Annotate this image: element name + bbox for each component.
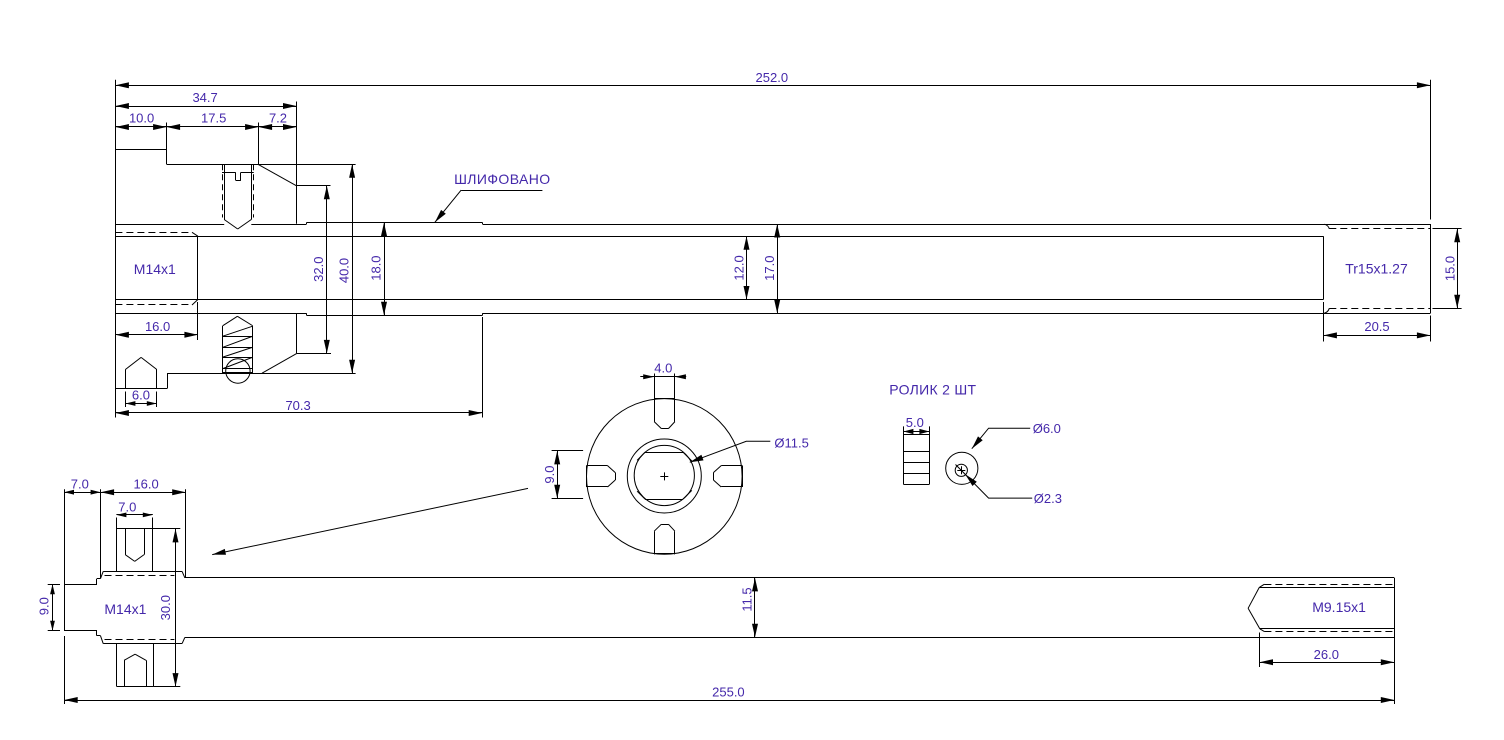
- dimension 255.0: [64, 636, 1394, 704]
- housing bottom diagonal: [262, 353, 297, 373]
- neck step bottom: [97, 631, 104, 644]
- dimension 7.0 (neck): [64, 476, 101, 494]
- dimension 10.0: [115, 110, 166, 130]
- neck top edge: [64, 584, 97, 586]
- label M9.15x1: [1312, 599, 1366, 615]
- ShLIFOVANO leader shelf: [461, 190, 542, 192]
- dimension 6.0: [125, 387, 156, 407]
- M14 thread root hidden top: [115, 232, 197, 236]
- label M14x1 (lower): [104, 601, 146, 617]
- svg-text:Ø2.3: Ø2.3: [1034, 491, 1062, 506]
- flange slot north: [654, 374, 675, 429]
- svg-text:26.0: 26.0: [1314, 647, 1339, 662]
- svg-text:11.5: 11.5: [740, 587, 755, 611]
- shaft outer top line left: [115, 224, 224, 226]
- svg-text:M9.15x1: M9.15x1: [1312, 599, 1366, 615]
- extension x=185.7: [185, 489, 187, 577]
- housing top step: [115, 149, 166, 151]
- set screw head top: [222, 172, 254, 174]
- svg-text:M14x1: M14x1: [134, 261, 176, 277]
- shaft outer top line mid: [251, 224, 306, 226]
- dimension 70.3: [115, 398, 482, 416]
- svg-text:255.0: 255.0: [712, 685, 745, 700]
- svg-text:7.2: 7.2: [269, 110, 287, 125]
- hex socket bottom boss: [124, 654, 146, 686]
- svg-text:15.0: 15.0: [1442, 256, 1457, 281]
- dimension 11.5: [740, 578, 758, 637]
- svg-text:7.0: 7.0: [71, 476, 89, 491]
- svg-text:16.0: 16.0: [133, 476, 158, 491]
- svg-text:9.0: 9.0: [542, 466, 557, 484]
- set screw slot: [236, 172, 241, 180]
- svg-text:4.0: 4.0: [654, 361, 672, 376]
- flange slot south: [654, 524, 675, 554]
- svg-text:6.0: 6.0: [132, 387, 150, 402]
- M14 crest bottom (lower): [103, 643, 182, 645]
- svg-text:9.0: 9.0: [37, 597, 52, 615]
- dimension 4.0 (slot width): [640, 361, 686, 380]
- svg-text:30.0: 30.0: [158, 595, 173, 620]
- svg-text:18.0: 18.0: [369, 255, 384, 280]
- lower shaft top edge: [185, 577, 1394, 579]
- extension line right end x=1430: [1430, 80, 1432, 220]
- leader dia 2.3: [956, 465, 1062, 506]
- shaft outer bottom line left: [115, 313, 306, 315]
- dimension 40.0: [337, 164, 355, 373]
- M14 root hidden top (lower): [105, 575, 175, 577]
- dimension 20.5: [1323, 302, 1430, 342]
- leader dia 11.5: [690, 435, 809, 462]
- dimension 16.0 (lower): [101, 476, 186, 495]
- 32.0 top extension: [297, 185, 331, 187]
- svg-text:5.0: 5.0: [906, 415, 924, 430]
- svg-text:10.0: 10.0: [129, 110, 154, 125]
- M14 crest top (lower): [103, 571, 182, 573]
- hex socket top boss: [125, 529, 144, 562]
- Tr root hidden bottom: [1329, 308, 1430, 310]
- svg-text:РОЛИК 2 ШТ: РОЛИК 2 ШТ: [889, 381, 976, 397]
- housing bottom edge: [115, 388, 167, 390]
- svg-text:252.0: 252.0: [756, 70, 789, 85]
- M14 end chamfer top: [182, 571, 185, 578]
- dimension 12.0: [731, 236, 749, 299]
- detent spring top cone: [223, 316, 253, 325]
- extension x=100.6: [100, 489, 102, 578]
- detent spring body: [223, 326, 253, 374]
- svg-text:Ø11.5: Ø11.5: [774, 435, 808, 450]
- shaft top step up: [306, 223, 308, 225]
- M9.15 root hidden bottom: [1260, 629, 1395, 632]
- spring coil 3: [223, 347, 253, 357]
- dimension 7.2: [259, 110, 297, 130]
- ShLIFOVANO leader arrow: [435, 190, 461, 222]
- shaft outer bottom line right: [483, 313, 1431, 315]
- shaft ground section top: [307, 222, 483, 224]
- shaft core bottom line: [115, 299, 1323, 301]
- set screw body right: [251, 164, 253, 219]
- M9.15 crest bottom: [1260, 628, 1395, 630]
- shaft top step down: [482, 223, 484, 225]
- dimension 7.0 (hex boss): [116, 499, 152, 529]
- svg-text:20.5: 20.5: [1364, 319, 1389, 334]
- svg-text:ШЛИФОВАНО: ШЛИФОВАНО: [454, 171, 550, 187]
- svg-text:Tr15x1.27: Tr15x1.27: [1345, 261, 1408, 277]
- housing left face / extension x=115.4: [115, 80, 117, 418]
- shaft ground section bottom: [307, 315, 483, 317]
- roller grooves: [903, 452, 929, 474]
- shaft outer top line right: [483, 224, 1431, 226]
- flange outer circle: [587, 399, 743, 555]
- label Tr15x1.27: [1345, 261, 1408, 277]
- Tr fillet top: [1324, 224, 1329, 229]
- extension line / housing right face x=296.5: [296, 102, 298, 224]
- svg-text:40.0: 40.0: [337, 258, 352, 283]
- M9.15 root hidden top: [1259, 584, 1394, 587]
- shaft right end face: [1430, 224, 1432, 313]
- hex boss bottom: [117, 644, 154, 687]
- svg-text:70.3: 70.3: [285, 398, 310, 413]
- shaft bottom step up: [482, 313, 484, 315]
- label ROLIK 2 ShT: [889, 381, 976, 397]
- dimension 30.0: [153, 529, 181, 687]
- spring coil 5: [223, 372, 253, 374]
- leader dia 6.0: [972, 421, 1061, 449]
- roller center mark: [957, 466, 965, 474]
- svg-text:34.7: 34.7: [192, 90, 217, 105]
- housing top chamfer diagonal: [258, 164, 297, 186]
- lower shaft left face: [64, 584, 66, 631]
- flange slot east: [713, 466, 742, 488]
- dimension 26.0: [1260, 633, 1395, 668]
- svg-text:M14x1: M14x1: [104, 601, 146, 617]
- flange square hole (flats and chamfers): [637, 452, 692, 499]
- dimension 32.0: [311, 186, 330, 354]
- dimension 9.0 (lower left): [37, 584, 60, 631]
- Tr root hidden top: [1329, 228, 1430, 230]
- roller outer circle: [946, 452, 978, 484]
- housing bottom line + 40.0 extension: [167, 373, 356, 375]
- lower shaft bottom edge: [185, 637, 1394, 639]
- hex socket end view (pentagon): [125, 357, 156, 388]
- hex boss top: [116, 529, 152, 572]
- M9.15 thread point: [1248, 587, 1260, 628]
- detent ball: [226, 359, 250, 383]
- label ShLIFOVANO: [454, 171, 550, 187]
- leader arrow flange to lower shaft: [212, 488, 528, 554]
- dimension 5.0: [903, 415, 929, 434]
- 32.0 bottom extension: [297, 353, 331, 355]
- dimension 34.7: [115, 90, 296, 109]
- flange slot west: [586, 466, 615, 488]
- svg-text:Ø6.0: Ø6.0: [1033, 421, 1061, 436]
- flange center mark: [660, 472, 668, 480]
- dimension 9.0 (square hole): [542, 451, 583, 499]
- housing bottom step: [167, 373, 169, 388]
- dimension 18.0: [369, 223, 387, 316]
- svg-text:12.0: 12.0: [731, 255, 746, 280]
- neck bottom edge: [64, 630, 97, 632]
- shaft bottom step: [306, 313, 308, 315]
- core end face x=1323.4: [1323, 236, 1325, 299]
- label M14x1 (top): [134, 261, 176, 277]
- svg-text:17.0: 17.0: [762, 256, 777, 281]
- Tr fillet bottom: [1324, 308, 1329, 313]
- extension line x=166.6: [166, 123, 168, 165]
- M14 thread root hidden bottom: [115, 300, 197, 306]
- set screw body left: [224, 164, 226, 219]
- M9.15 crest top: [1259, 587, 1394, 589]
- roller side view: [903, 426, 929, 484]
- spring coil 1: [223, 326, 253, 336]
- extension x=63.5: [64, 489, 66, 584]
- dimension 252.0 (overall length, top shaft): [115, 70, 1430, 88]
- roller bore circle: [955, 464, 967, 476]
- dimension 16.0 (top drawing): [115, 319, 197, 338]
- lower shaft right end face / extension: [1394, 578, 1396, 704]
- housing lower right face: [296, 314, 298, 354]
- M14 root hidden bottom (lower): [105, 639, 175, 641]
- svg-text:16.0: 16.0: [145, 319, 170, 334]
- M14 thread end face: [197, 236, 199, 299]
- shaft core top line: [115, 236, 1323, 238]
- dimension 17.5: [167, 110, 259, 130]
- neck step top: [97, 571, 104, 584]
- svg-text:7.0: 7.0: [118, 499, 136, 514]
- svg-text:17.5: 17.5: [201, 110, 226, 125]
- housing top edge + 40.0 extension: [167, 164, 356, 166]
- set screw hole hidden line left: [222, 164, 224, 217]
- extension line x=482.2: [482, 317, 484, 418]
- extension line x=197.9: [197, 302, 199, 340]
- spring coil 2: [223, 336, 253, 347]
- dimension 15.0: [1433, 229, 1462, 309]
- M14 end chamfer bottom: [182, 637, 185, 643]
- dimension 17.0: [762, 224, 780, 313]
- flange ring circle: [627, 439, 701, 513]
- set screw tip V: [224, 220, 251, 230]
- flange bore circle dia 11.5: [634, 445, 694, 505]
- spring coil 4: [223, 357, 253, 368]
- set screw hole hidden line right: [253, 164, 255, 217]
- svg-text:32.0: 32.0: [311, 257, 326, 282]
- extension line x=258.6: [258, 123, 260, 165]
